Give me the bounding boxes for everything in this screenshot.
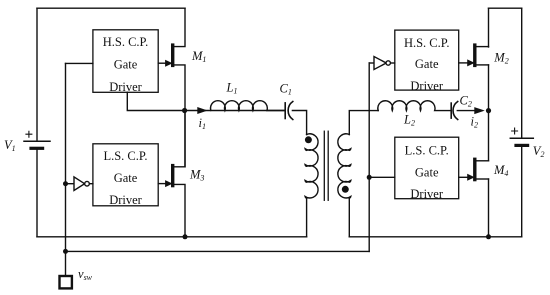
svg-text:Driver: Driver xyxy=(410,187,443,201)
svg-text:Driver: Driver xyxy=(109,193,142,207)
svg-text:Driver: Driver xyxy=(109,80,142,94)
svg-text:H.S. C.P.: H.S. C.P. xyxy=(103,35,149,49)
svg-text:H.S. C.P.: H.S. C.P. xyxy=(404,36,450,50)
svg-text:Gate: Gate xyxy=(415,57,439,71)
svg-text:L.S. C.P.: L.S. C.P. xyxy=(103,149,147,163)
svg-text:Gate: Gate xyxy=(114,58,138,72)
svg-text:Gate: Gate xyxy=(114,171,138,185)
svg-text:Driver: Driver xyxy=(410,79,443,93)
svg-text:Gate: Gate xyxy=(415,165,439,179)
svg-text:L.S. C.P.: L.S. C.P. xyxy=(405,144,449,158)
